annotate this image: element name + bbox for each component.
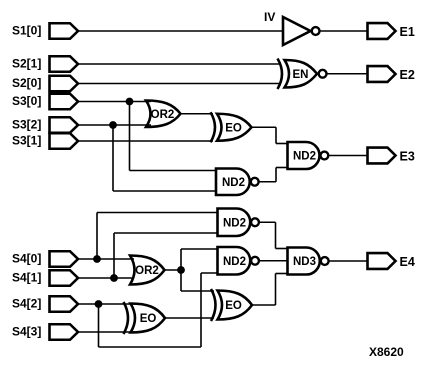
svg-text:ND2: ND2 — [223, 217, 246, 229]
wire S3[0] branch down — [129, 102, 131, 171]
NAND gate ND2 (E3 output) — [288, 142, 320, 169]
junction OR2 output node — [177, 266, 185, 274]
wire S3[2] to OR2 — [78, 124, 151, 126]
junction on S4[2] wire — [95, 300, 103, 308]
svg-text:EO: EO — [140, 313, 157, 325]
svg-text:S4[3]: S4[3] — [12, 325, 41, 339]
svg-text:S2[0]: S2[0] — [12, 76, 41, 90]
svg-text:EN: EN — [293, 69, 309, 81]
NAND gate ND2 (E3 lower) — [216, 169, 250, 196]
wire S3[1] to EO — [78, 140, 213, 142]
wire ND3 to E4 — [329, 260, 368, 262]
wire ND2 to E3 — [329, 155, 368, 157]
svg-text:E1: E1 — [400, 25, 415, 39]
XOR gate EO (E4 upper) input arc — [211, 289, 216, 321]
wire S4[2] to EO — [78, 303, 135, 305]
svg-text:S2[1]: S2[1] — [12, 57, 41, 71]
wire S2[1] to EN — [78, 63, 280, 65]
wire OR2 output — [165, 269, 182, 271]
XNOR gate EN body — [285, 60, 318, 88]
wire into ND2 top input — [276, 143, 289, 145]
wire ND2 output up — [275, 168, 277, 182]
input port S3[1] — [50, 133, 79, 149]
svg-text:OR2: OR2 — [135, 265, 159, 277]
wire ND2 output right — [259, 181, 276, 183]
wire ND2 output right — [259, 221, 275, 223]
output port E3 — [368, 148, 396, 164]
svg-text:ND3: ND3 — [293, 256, 316, 268]
wire into ND3 bottom input — [276, 273, 289, 275]
wire into ND2 bottom input — [276, 167, 289, 169]
svg-text:ND2: ND2 — [222, 177, 245, 189]
svg-text:EO: EO — [225, 122, 242, 134]
wire S4[1] to OR2 — [78, 277, 134, 279]
XOR gate EO (E4 lower) body — [131, 304, 166, 333]
output port E1 — [368, 23, 396, 39]
svg-text:E2: E2 — [400, 68, 415, 82]
NAND ND2 (E3 lower) output bubble — [251, 178, 259, 186]
input port S4[3] — [50, 324, 79, 340]
inverter IV output bubble — [312, 27, 320, 35]
svg-text:S1[0]: S1[0] — [12, 24, 41, 38]
wire ND2 mid output to ND3 — [259, 260, 288, 262]
wire S4[2] branch down — [98, 304, 100, 347]
svg-text:ND2: ND2 — [223, 256, 246, 268]
input port S3[0] — [50, 94, 79, 110]
input port S1[0] — [50, 23, 79, 39]
NAND ND2 (E4 middle) output bubble — [251, 257, 259, 265]
wire S3[0] to OR2 — [78, 101, 151, 103]
wire to ND2 bottom input — [114, 232, 219, 234]
svg-text:X8620: X8620 — [369, 345, 404, 359]
OR gate OR2 (E4 section) — [130, 256, 165, 285]
wire S4[0] branch up — [96, 213, 98, 260]
NAND ND2 (E3 output) bubble — [321, 152, 329, 160]
svg-text:E3: E3 — [400, 150, 415, 164]
XOR gate EO (E4 upper) body — [218, 291, 253, 320]
svg-text:ND2: ND2 — [293, 151, 316, 163]
wire to ND2 upper input — [130, 170, 218, 172]
wire to ND2 mid top input — [181, 248, 219, 250]
svg-text:S4[2]: S4[2] — [12, 297, 41, 311]
input port S2[1] — [50, 56, 79, 72]
NAND gate ND2 (E4 middle) — [218, 247, 251, 275]
wire EO upper output up — [275, 274, 277, 306]
junction on S3[2] wire — [109, 121, 117, 129]
NAND gate ND3 — [288, 248, 320, 275]
svg-text:S3[0]: S3[0] — [12, 94, 41, 108]
NAND ND3 output bubble — [321, 257, 329, 265]
inverter IV — [283, 17, 311, 45]
wire ND2 output down — [275, 222, 277, 248]
wire OR2 to EO — [181, 113, 214, 115]
wire S2[0] to EN — [78, 83, 280, 85]
wire vertical from S4[2] net — [200, 273, 202, 347]
input port S4[0] — [50, 251, 79, 267]
wire to ND2 lower input — [113, 190, 217, 192]
input port S4[2] — [50, 296, 79, 312]
svg-text:EO: EO — [225, 300, 242, 312]
wire into ND3 top input — [276, 248, 289, 250]
input port S4[1] — [50, 270, 79, 286]
svg-text:S3[1]: S3[1] — [12, 134, 41, 148]
wire bottom horizontal — [99, 346, 202, 348]
svg-text:S4[1]: S4[1] — [12, 271, 41, 285]
NAND ND2 (E4 top) output bubble — [251, 218, 259, 226]
wire S4[1] branch up — [113, 233, 115, 278]
XOR gate EO (E4 lower) input arc — [124, 302, 129, 334]
junction on S4[1] wire — [110, 274, 118, 282]
XNOR gate EN output bubble — [319, 70, 327, 78]
wire OR2 node vertical — [180, 249, 182, 291]
input port S3[2] — [50, 117, 79, 133]
wire to EO top input — [181, 290, 214, 292]
wire to ND2 top input — [97, 212, 219, 214]
OR gate OR2 (E3 section) — [146, 101, 181, 128]
wire EN to E2 — [327, 73, 368, 75]
svg-text:S4[0]: S4[0] — [12, 252, 41, 266]
wire S4[0] to OR2 — [78, 258, 134, 260]
svg-text:S3[2]: S3[2] — [12, 118, 41, 132]
wire EO upper output right — [252, 304, 276, 306]
wire S1[0] to inverter — [78, 30, 283, 32]
svg-text:E4: E4 — [400, 255, 415, 269]
junction on S4[0] wire — [93, 255, 101, 263]
svg-text:IV: IV — [264, 10, 275, 24]
svg-text:OR2: OR2 — [151, 109, 175, 121]
output port E2 — [368, 66, 396, 82]
XNOR gate EN input arc — [278, 59, 283, 90]
wire EO output right — [252, 126, 277, 128]
XOR gate EO (E3 section) body — [217, 114, 252, 141]
input port S2[0] — [50, 76, 79, 92]
NAND gate ND2 (E4 top) — [218, 209, 251, 237]
junction on S3[0] wire — [126, 98, 134, 106]
output port E4 — [368, 253, 396, 269]
wire EO output down — [275, 127, 277, 143]
wire S3[2] branch down — [112, 125, 114, 191]
wire S4[3] to EO — [78, 331, 135, 333]
wire EO lower output to EO upper — [165, 317, 214, 319]
wire inverter to E1 — [320, 30, 368, 32]
XOR gate EO (E3 section) input arc — [211, 112, 216, 142]
wire ND2 mid bottom input stub — [201, 272, 219, 274]
